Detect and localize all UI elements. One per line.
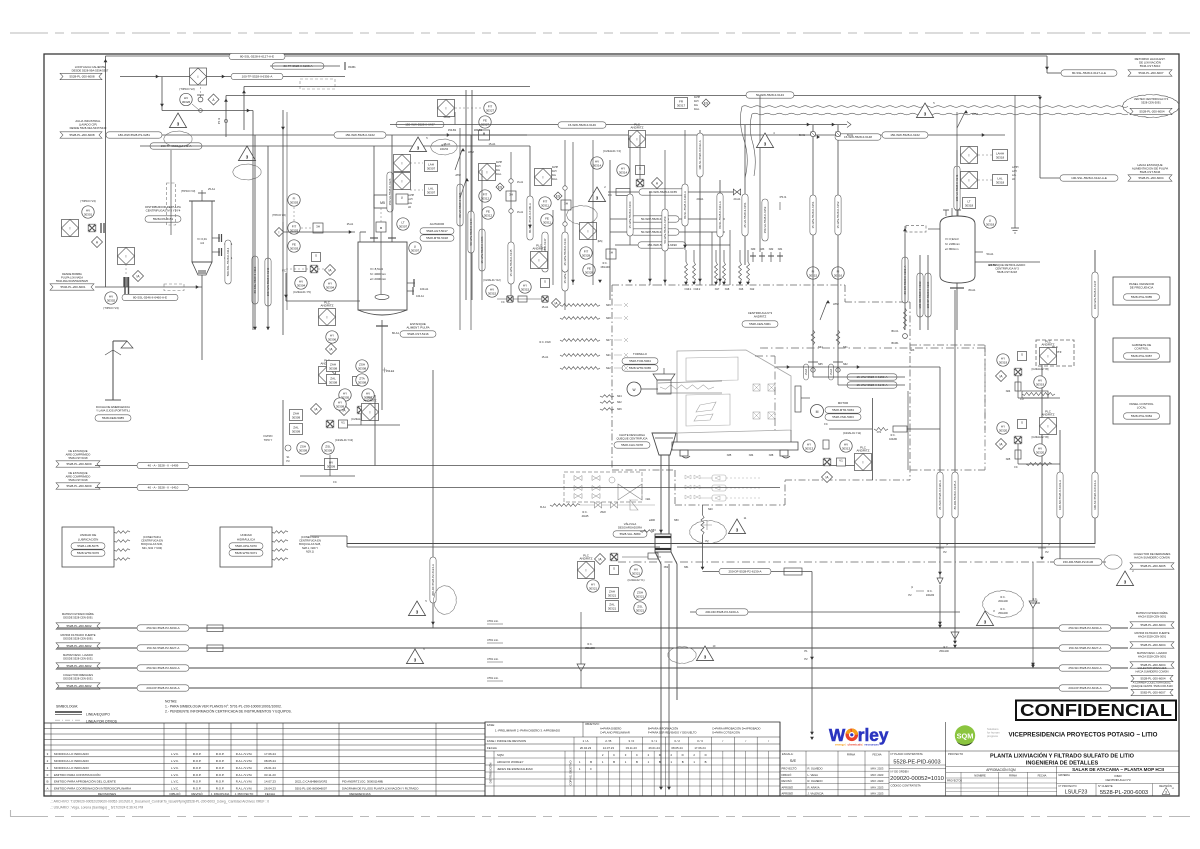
off-page 6002c xyxy=(56,663,100,669)
plc andritz main xyxy=(1036,340,1074,366)
svg-text:ES: ES xyxy=(498,185,502,189)
svg-text:3 / 2: 3 / 2 xyxy=(674,739,680,743)
svg-text:30321: 30321 xyxy=(608,593,617,597)
wire dashdot interface xyxy=(618,561,1050,563)
insulation box xyxy=(300,79,335,89)
vert tag h xyxy=(662,209,668,251)
svg-text:80-SSL-5528-II-6127-A-E: 80-SSL-5528-II-6127-A-E xyxy=(240,55,274,59)
svg-text:ANDRITZ: ANDRITZ xyxy=(1042,343,1055,347)
svg-text:3 / 3: 3 / 3 xyxy=(697,739,703,743)
svg-text:FAL: FAL xyxy=(694,104,699,107)
svg-text:30309: 30309 xyxy=(336,404,345,408)
pipe tag 6150 xyxy=(847,374,897,380)
gray valve row xyxy=(540,498,655,518)
svg-text:ø400: ø400 xyxy=(649,518,655,522)
svg-text:1: 1 xyxy=(693,760,695,764)
rev triangle2 xyxy=(567,185,612,224)
svg-text:250x200: 250x200 xyxy=(998,612,1008,615)
svg-text:EMITIDO PARA COORDINACIÓN INTE: EMITIDO PARA COORDINACIÓN INTERDISCIPLIN… xyxy=(54,785,131,790)
svg-text:LOCAL: LOCAL xyxy=(1137,406,1147,410)
cluster FR stack xyxy=(479,152,524,300)
svg-text:F: F xyxy=(590,767,592,771)
svg-text:30311: 30311 xyxy=(543,220,551,224)
wire 6159 xyxy=(610,231,725,233)
svg-text:N02: N02 xyxy=(617,401,622,404)
svg-text:5528-PL-200-6004: 5528-PL-200-6004 xyxy=(1140,623,1165,627)
wire vert x593 xyxy=(592,140,594,285)
svg-text:B: B xyxy=(590,760,592,764)
svg-text:200x100: 200x100 xyxy=(998,600,1008,603)
cap 6142v xyxy=(457,184,463,226)
centrifuge feed nozzles xyxy=(600,395,622,411)
vert tag i xyxy=(542,232,548,272)
svg-text:Y LAVA OJOS (PORTÁTIL): Y LAVA OJOS (PORTÁTIL) xyxy=(96,409,130,413)
svg-text:DESDE 5528-CEN-5091: DESDE 5528-CEN-5091 xyxy=(63,637,93,641)
wire vert x955 xyxy=(939,290,959,653)
cluster retrolavado level xyxy=(961,147,1019,229)
pipe tag 6158 xyxy=(631,216,679,222)
svg-text:26.01.24: 26.01.24 xyxy=(264,766,276,770)
svg-text:V1: V1 xyxy=(839,458,843,462)
svg-text:5528-WTR-5076: 5528-WTR-5076 xyxy=(77,551,100,555)
svg-text:N23: N23 xyxy=(910,349,915,352)
pipe tag 6162 xyxy=(334,132,386,138)
vert tag 6134 xyxy=(1092,472,1098,518)
svg-text:30328: 30328 xyxy=(582,253,591,257)
valve B-N1 left xyxy=(799,131,815,137)
svg-text:80-A1: 80-A1 xyxy=(969,288,976,292)
cluster FIT30311 xyxy=(535,140,572,310)
centrifuge feed springs xyxy=(684,250,755,291)
unidad lubricacion xyxy=(62,527,163,567)
cluster FIT30327 xyxy=(438,100,497,141)
tank outlet xyxy=(376,320,399,335)
svg-text:F=PARA SER REVISADO Y DEVUELTO: F=PARA SER REVISADO Y DEVUELTO xyxy=(648,731,697,735)
svg-text:MAY. 2023: MAY. 2023 xyxy=(871,792,884,796)
svg-text:ANDRITZ: ANDRITZ xyxy=(1042,413,1055,417)
revision table text xyxy=(46,752,419,796)
wire 6158 xyxy=(610,218,725,220)
wire x1015 xyxy=(1011,95,1019,233)
P marks x1042 xyxy=(1038,543,1051,554)
svg-text:5528-PL-200-6008: 5528-PL-200-6008 xyxy=(69,133,94,137)
tri x705 b xyxy=(696,645,716,661)
wire vert x940 xyxy=(938,367,942,578)
svg-text:N21: N21 xyxy=(606,354,611,357)
svg-text:30315: 30315 xyxy=(521,287,530,291)
pipe tag 6146 xyxy=(558,122,606,128)
svg-text:50-WW-5528-II-6159: 50-WW-5528-II-6159 xyxy=(663,216,667,243)
ps marker xyxy=(780,195,787,210)
svg-text:150-DR-5528-P2-6136: 150-DR-5528-P2-6136 xyxy=(1063,560,1094,564)
svg-text:15-WW-5528-II-6152: 15-WW-5528-II-6152 xyxy=(836,201,840,228)
svg-text:D: D xyxy=(659,753,661,757)
svg-text:1: 1 xyxy=(671,760,673,764)
svg-text:1.- PARA SIMBOLOGIA VER PLANO: 1.- PARA SIMBOLOGIA VER PLANOS N°: 5701-… xyxy=(165,705,282,709)
svg-text:P2: P2 xyxy=(705,539,709,543)
svg-text:FALL: FALL xyxy=(694,108,700,111)
wire 6155 xyxy=(608,189,741,195)
svg-text:APROBACIÓN SQM: APROBACIÓN SQM xyxy=(986,767,1016,772)
svg-text:.:: USUARIO : Vega, Lorena (: .:: USUARIO : Vega, Lorena (Santiago) _ … xyxy=(50,806,144,810)
svg-text:m3: m3 xyxy=(200,241,204,245)
svg-text:R. OLMEDO: R. OLMEDO xyxy=(808,767,823,771)
svg-text:B-N1: B-N1 xyxy=(847,134,853,137)
svg-text:30308: 30308 xyxy=(358,366,367,370)
wire agua industrial main xyxy=(120,133,1005,137)
svg-text:OBJETIVO:: OBJETIVO: xyxy=(585,722,600,726)
svg-text:I: I xyxy=(446,106,447,110)
svg-text:.:: ARCHIVO: T:\209020-00052: .:: ARCHIVO: T:\209020-00052\209020-0005… xyxy=(50,800,269,804)
off-page tag 6127 xyxy=(1061,70,1117,76)
svg-text:COPIAS, OBJETIVO: COPIAS, OBJETIVO xyxy=(569,761,573,786)
unidad hidraulica xyxy=(220,527,321,567)
label retrolavado xyxy=(989,263,1027,274)
svg-text:R.O.P.: R.O.P. xyxy=(216,766,225,770)
svg-text:5528-CHU-5078: 5528-CHU-5078 xyxy=(621,443,643,447)
svg-text:V1: V1 xyxy=(341,420,345,424)
capsule 6148b xyxy=(835,134,881,140)
svg-text:N° CLIENTE: N° CLIENTE xyxy=(1098,784,1113,788)
svg-text:2: 2 xyxy=(693,753,695,757)
svg-text:DESDE 5528-CEN-5031: DESDE 5528-CEN-5031 xyxy=(63,677,93,681)
wire vert x573 xyxy=(572,142,574,285)
svg-text:5528-PNL-5085: 5528-PNL-5085 xyxy=(1131,295,1153,299)
svg-text:/: / xyxy=(722,739,723,743)
wire tf 6140 xyxy=(140,146,530,230)
svg-text:MATRIZ FILTRADO DÉBIL: MATRIZ FILTRADO DÉBIL xyxy=(62,611,95,616)
svg-text:MATERIA: MATERIA xyxy=(1059,773,1071,777)
svg-text:100-B1: 100-B1 xyxy=(988,263,997,267)
svg-text:15-A1: 15-A1 xyxy=(517,211,524,214)
svg-text:30304: 30304 xyxy=(297,283,306,287)
svg-text:C=PLANO PRELIMINAR: C=PLANO PRELIMINAR xyxy=(600,731,630,735)
legend simbologia xyxy=(55,705,118,724)
svg-text:A CORREA COLECTORA DESC.: A CORREA COLECTORA DESC. xyxy=(1133,681,1172,685)
svg-text:30320: 30320 xyxy=(999,428,1008,432)
svg-text:TIPO Y: TIPO Y xyxy=(264,438,273,442)
vert tag 6131 xyxy=(902,257,908,303)
svg-text:LAH: LAH xyxy=(408,198,413,201)
pipe tag vert x268 xyxy=(265,258,271,306)
label matriz lavado xyxy=(63,653,93,661)
svg-text:N12: N12 xyxy=(750,288,755,291)
svg-text:FC: FC xyxy=(501,301,504,304)
wire chute drop xyxy=(661,455,669,534)
svg-text:80-SSL-5546-II-6460-A-E: 80-SSL-5546-II-6460-A-E xyxy=(133,296,167,300)
svg-text:chemicals: chemicals xyxy=(848,743,863,747)
svg-text:NA1: NA1 xyxy=(646,498,651,501)
svg-text:(TPICO V2): (TPICO V2) xyxy=(272,213,286,217)
wire vertical x287 xyxy=(286,112,288,310)
svg-text:MAY. 2023: MAY. 2023 xyxy=(871,767,884,771)
vert tag m xyxy=(762,199,768,241)
svg-text:5528-PNL-5087: 5528-PNL-5087 xyxy=(1131,354,1153,358)
inline symbol square-diamond xyxy=(190,68,207,85)
vert tag 6147 xyxy=(1092,272,1098,318)
svg-text:30318: 30318 xyxy=(996,155,1005,159)
svg-text:N62: N62 xyxy=(843,363,848,366)
label colector derrames xyxy=(1130,552,1174,569)
svg-text:I: I xyxy=(539,258,540,262)
svg-text:FECHA: FECHA xyxy=(872,753,881,757)
svg-text:MATRIZ DESC. LAVADO: MATRIZ DESC. LAVADO xyxy=(1137,651,1167,655)
svg-text:2: 2 xyxy=(648,753,650,757)
svg-text:200-DP-5528-P2-6016-A: 200-DP-5528-P2-6016-A xyxy=(146,686,179,690)
svg-text:(C23AL02.Y1): (C23AL02.Y1) xyxy=(627,578,644,582)
skid valves xyxy=(574,476,642,501)
svg-text:LI: LI xyxy=(401,195,404,199)
wire feed tank top xyxy=(430,128,527,135)
svg-text:5528-CEN-5091: 5528-CEN-5091 xyxy=(1141,101,1161,105)
wire header DP 6016 xyxy=(57,687,1128,689)
wire vert x745 xyxy=(744,125,746,265)
svg-text:5501-PL-100-I6000#6007: 5501-PL-100-I6000#6007 xyxy=(295,786,327,790)
wire vert x610 xyxy=(609,160,611,300)
wire vert x630 xyxy=(629,135,631,245)
svg-text:N29.1): N29.1) xyxy=(306,549,314,553)
off-page tag 5528-PL-200-6008a xyxy=(60,73,102,79)
svg-text:N04: N04 xyxy=(617,395,622,398)
svg-text:TORNILLO: TORNILLO xyxy=(633,352,648,356)
vert tag f xyxy=(479,229,485,271)
svg-text:3: 3 xyxy=(1165,791,1167,795)
svg-text:5528-VSD-5063: 5528-VSD-5063 xyxy=(832,415,854,419)
svg-text:80-WW-5528-II-6155: 80-WW-5528-II-6155 xyxy=(649,190,677,194)
svg-text:[ES]: [ES] xyxy=(598,240,603,243)
tank side nozzle xyxy=(407,287,425,298)
svg-text:I: I xyxy=(198,75,199,79)
svg-text:I: I xyxy=(588,229,589,233)
funnel x940 xyxy=(937,578,943,584)
svg-text:5528-UPH-5070: 5528-UPH-5070 xyxy=(235,544,257,548)
svg-text:N30: N30 xyxy=(751,248,756,251)
fitting 6155 xyxy=(616,189,741,202)
svg-text:30307: 30307 xyxy=(427,190,436,194)
svg-text:R.C.: R.C. xyxy=(588,643,593,646)
svg-text:N25: N25 xyxy=(1006,458,1011,461)
cap 6144v xyxy=(468,211,474,253)
svg-text:NOTAS:: NOTAS: xyxy=(165,700,177,704)
svg-text:0: 0 xyxy=(47,773,49,777)
pipe tag 6016L xyxy=(137,685,189,691)
label colector drenajes xyxy=(63,673,93,681)
svg-text:LSULF23: LSULF23 xyxy=(1065,790,1088,796)
header junctions xyxy=(810,625,1035,740)
svg-text:25-VA-5528-II-6151: 25-VA-5528-II-6151 xyxy=(743,202,747,228)
wire vert x650 xyxy=(648,192,652,285)
svg-text:R. OLMEDO: R. OLMEDO xyxy=(808,779,823,783)
svg-text:12: 12 xyxy=(1172,788,1175,790)
tri3 x765 xyxy=(756,132,775,148)
svg-text:B0-B1: B0-B1 xyxy=(892,342,900,345)
svg-text:R.C.: R.C. xyxy=(583,511,588,514)
svg-text:A: A xyxy=(46,786,48,790)
svg-text:DESDE 5528-99A-5437/5440: DESDE 5528-99A-5437/5440 xyxy=(70,126,107,130)
project info block xyxy=(946,752,1179,797)
pipe tag 6027R xyxy=(1059,645,1111,651)
svg-text:|: | xyxy=(846,743,847,747)
label chute xyxy=(614,433,650,448)
svg-text:25-WW-5528-II-6129-A: 25-WW-5528-II-6129-A xyxy=(938,480,942,510)
svg-text:FAH: FAH xyxy=(552,170,557,173)
wire x872 xyxy=(872,398,874,480)
svg-text:FAHH: FAHH xyxy=(552,166,558,169)
retrolavado nozzles xyxy=(903,226,1040,331)
pipe tag 6130 xyxy=(719,568,771,574)
cluster N25 xyxy=(996,409,1061,469)
svg-text:30309: 30309 xyxy=(299,448,308,452)
svg-text:2: 2 xyxy=(604,185,606,189)
svg-text:209020-00052=1010: 209020-00052=1010 xyxy=(890,776,944,782)
pipe tag 6155 xyxy=(639,189,687,195)
gabinete control xyxy=(1113,338,1170,362)
svg-text:LR: LR xyxy=(408,207,411,209)
svg-text:15-WW-5528-II-6151: 15-WW-5528-II-6151 xyxy=(811,201,815,228)
svg-text:VENTEO CENTRIFUGA N°4: VENTEO CENTRIFUGA N°4 xyxy=(1134,97,1169,101)
off-page tag 6001 xyxy=(50,284,94,290)
svg-text:I: I xyxy=(969,178,970,182)
svg-text:N07: N07 xyxy=(606,339,611,342)
svg-text:N32: N32 xyxy=(769,248,774,251)
revision table grid xyxy=(44,723,485,796)
centrifuge base xyxy=(672,430,798,458)
svg-text:NOMBRE: NOMBRE xyxy=(974,774,986,778)
svg-text:h= 4000mm: h= 4000mm xyxy=(370,272,386,276)
svg-text:MATRIZ FILTRADO FUERTE: MATRIZ FILTRADO FUERTE xyxy=(60,633,95,637)
wire 6146 xyxy=(535,122,851,128)
svg-text:30307: 30307 xyxy=(427,166,436,170)
wire twin discharge xyxy=(310,536,1095,547)
valve hv top xyxy=(156,75,253,113)
svg-text:30327: 30327 xyxy=(486,108,495,112)
funnel x1033 xyxy=(1029,601,1037,608)
svg-text:30328: 30328 xyxy=(585,270,594,274)
svg-text:L.V.C.: L.V.C. xyxy=(171,773,179,777)
svg-text:I: I xyxy=(327,315,328,319)
svg-text:R.O.P.: R.O.P. xyxy=(216,786,225,790)
wire DR 6136 xyxy=(1050,561,1106,563)
P marks x812 xyxy=(804,649,813,661)
instrument cluster x70 xyxy=(62,199,105,248)
svg-text:30303: 30303 xyxy=(290,200,299,204)
svg-text:5582-PL-200-6007: 5582-PL-200-6007 xyxy=(1140,691,1165,695)
svg-text:ANDRITZ: ANDRITZ xyxy=(631,126,644,130)
valve 15-A4 R xyxy=(829,364,841,380)
wire vertical x283 xyxy=(281,110,285,335)
svg-text:L.V.C.: L.V.C. xyxy=(171,752,179,756)
svg-text:N33: N33 xyxy=(760,248,765,251)
svg-text:30306: 30306 xyxy=(328,337,337,341)
svg-text:PS I1: PS I1 xyxy=(217,117,221,124)
svg-text:5528-CST-5318: 5528-CST-5318 xyxy=(69,478,88,482)
svg-text:LAL: LAL xyxy=(1012,174,1017,177)
svg-text:LUBRICACIÓN: LUBRICACIÓN xyxy=(78,537,99,542)
svg-text:DESDE BOMBA: DESDE BOMBA xyxy=(62,272,82,276)
svg-text:MAY. 2023: MAY. 2023 xyxy=(871,785,884,789)
svg-text:250x100: 250x100 xyxy=(939,650,949,653)
svg-text:5546-PL-200-6007: 5546-PL-200-6007 xyxy=(1138,71,1163,75)
svg-text:I: I xyxy=(1048,354,1049,358)
svg-text:N61: N61 xyxy=(843,346,848,349)
svg-text:FC: FC xyxy=(333,480,337,484)
svg-text:25-A1: 25-A1 xyxy=(208,187,215,191)
svg-text:N° PLANO CONTRATISTA: N° PLANO CONTRATISTA xyxy=(891,752,923,756)
svg-text:5528-PL-200-6004: 5528-PL-200-6004 xyxy=(1138,176,1163,180)
svg-text:FIRMA: FIRMA xyxy=(847,753,856,757)
pipe tag 6460 xyxy=(122,294,178,300)
svg-text:5528-CST-5218: 5528-CST-5218 xyxy=(997,270,1017,274)
svg-text:26.04.23: 26.04.23 xyxy=(580,746,592,750)
svg-text:HACIA 5528-CEN-5091: HACIA 5528-CEN-5091 xyxy=(1138,615,1167,619)
svg-text:100-SL-5528-II-6112-A: 100-SL-5528-II-6112-A xyxy=(698,140,702,169)
svg-text:i=5% min.: i=5% min. xyxy=(487,638,499,642)
svg-text:ANDRITZ: ANDRITZ xyxy=(533,247,546,251)
svg-text:FIRMA: FIRMA xyxy=(1009,774,1017,778)
svg-text:B: B xyxy=(636,760,638,764)
svg-text:40x25: 40x25 xyxy=(582,515,589,518)
svg-text:30319: 30319 xyxy=(1036,382,1045,386)
svg-text:ø= 2000mm: ø= 2000mm xyxy=(370,277,387,281)
svg-text:DE FRECUENCIA: DE FRECUENCIA xyxy=(1130,286,1154,290)
wire vert x920 xyxy=(919,255,921,330)
svg-text:resources: resources xyxy=(865,743,880,747)
vert tag a xyxy=(697,133,703,177)
pipe tag 6159 xyxy=(631,229,679,235)
svg-text:200-DP-5528-P2-6016-A: 200-DP-5528-P2-6016-A xyxy=(1068,686,1101,690)
wire x1033 xyxy=(1031,562,1035,666)
svg-text:DESDE 5528-CEN-5031: DESDE 5528-CEN-5031 xyxy=(63,657,93,661)
fase revision cells xyxy=(574,737,780,796)
cluster FIT30329 xyxy=(580,223,617,277)
svg-text:B: B xyxy=(705,760,707,764)
pipe tag 6016R xyxy=(1059,685,1111,691)
svg-text:1: 1 xyxy=(602,760,604,764)
label matriz fuerte R xyxy=(1134,631,1169,639)
svg-text:S: S xyxy=(613,566,615,570)
svg-text:100-A1: 100-A1 xyxy=(420,287,429,291)
svg-text:5546-99A-5015/5020/5025: 5546-99A-5015/5020/5025 xyxy=(56,279,88,283)
svg-text:30315: 30315 xyxy=(488,291,497,295)
label estanque aliment xyxy=(400,322,436,337)
svg-text:N08: N08 xyxy=(606,317,611,320)
cluster HV30315 xyxy=(484,243,561,307)
svg-text:N20: N20 xyxy=(708,508,713,511)
svg-text:ø= 800mm: ø= 800mm xyxy=(945,247,959,251)
svg-text:5528-PL-200-6004: 5528-PL-200-6004 xyxy=(1140,643,1165,647)
wire vert x1095 xyxy=(1094,250,1096,544)
fitting 6030 xyxy=(207,625,223,632)
svg-text:I: I xyxy=(70,226,71,230)
svg-text:R.C.: R.C. xyxy=(928,590,933,593)
svg-text:30308: 30308 xyxy=(329,366,338,370)
wire center top 6143 xyxy=(226,95,1042,178)
atm arrow 2 xyxy=(820,300,839,320)
wire y137 arrows xyxy=(817,135,820,139)
svg-text:EMITIDO PARA APROBACIÓN DEL CL: EMITIDO PARA APROBACIÓN DEL CLIENTE xyxy=(54,779,116,784)
svg-text:30318: 30318 xyxy=(996,180,1005,184)
tank riser 1 xyxy=(373,146,375,242)
svg-text:1: 1 xyxy=(579,767,581,771)
svg-text:FAL: FAL xyxy=(552,174,557,177)
svg-text:100-SF-5528-II-6134-A: 100-SF-5528-II-6134-A xyxy=(1093,480,1097,510)
tri x418 xyxy=(408,600,427,616)
svg-text:N65: N65 xyxy=(818,363,823,366)
svg-text:C: C xyxy=(636,753,638,757)
svg-text:30309: 30309 xyxy=(327,464,336,468)
page cut line bottom xyxy=(10,810,1190,817)
svg-text:30317: 30317 xyxy=(677,103,686,107)
